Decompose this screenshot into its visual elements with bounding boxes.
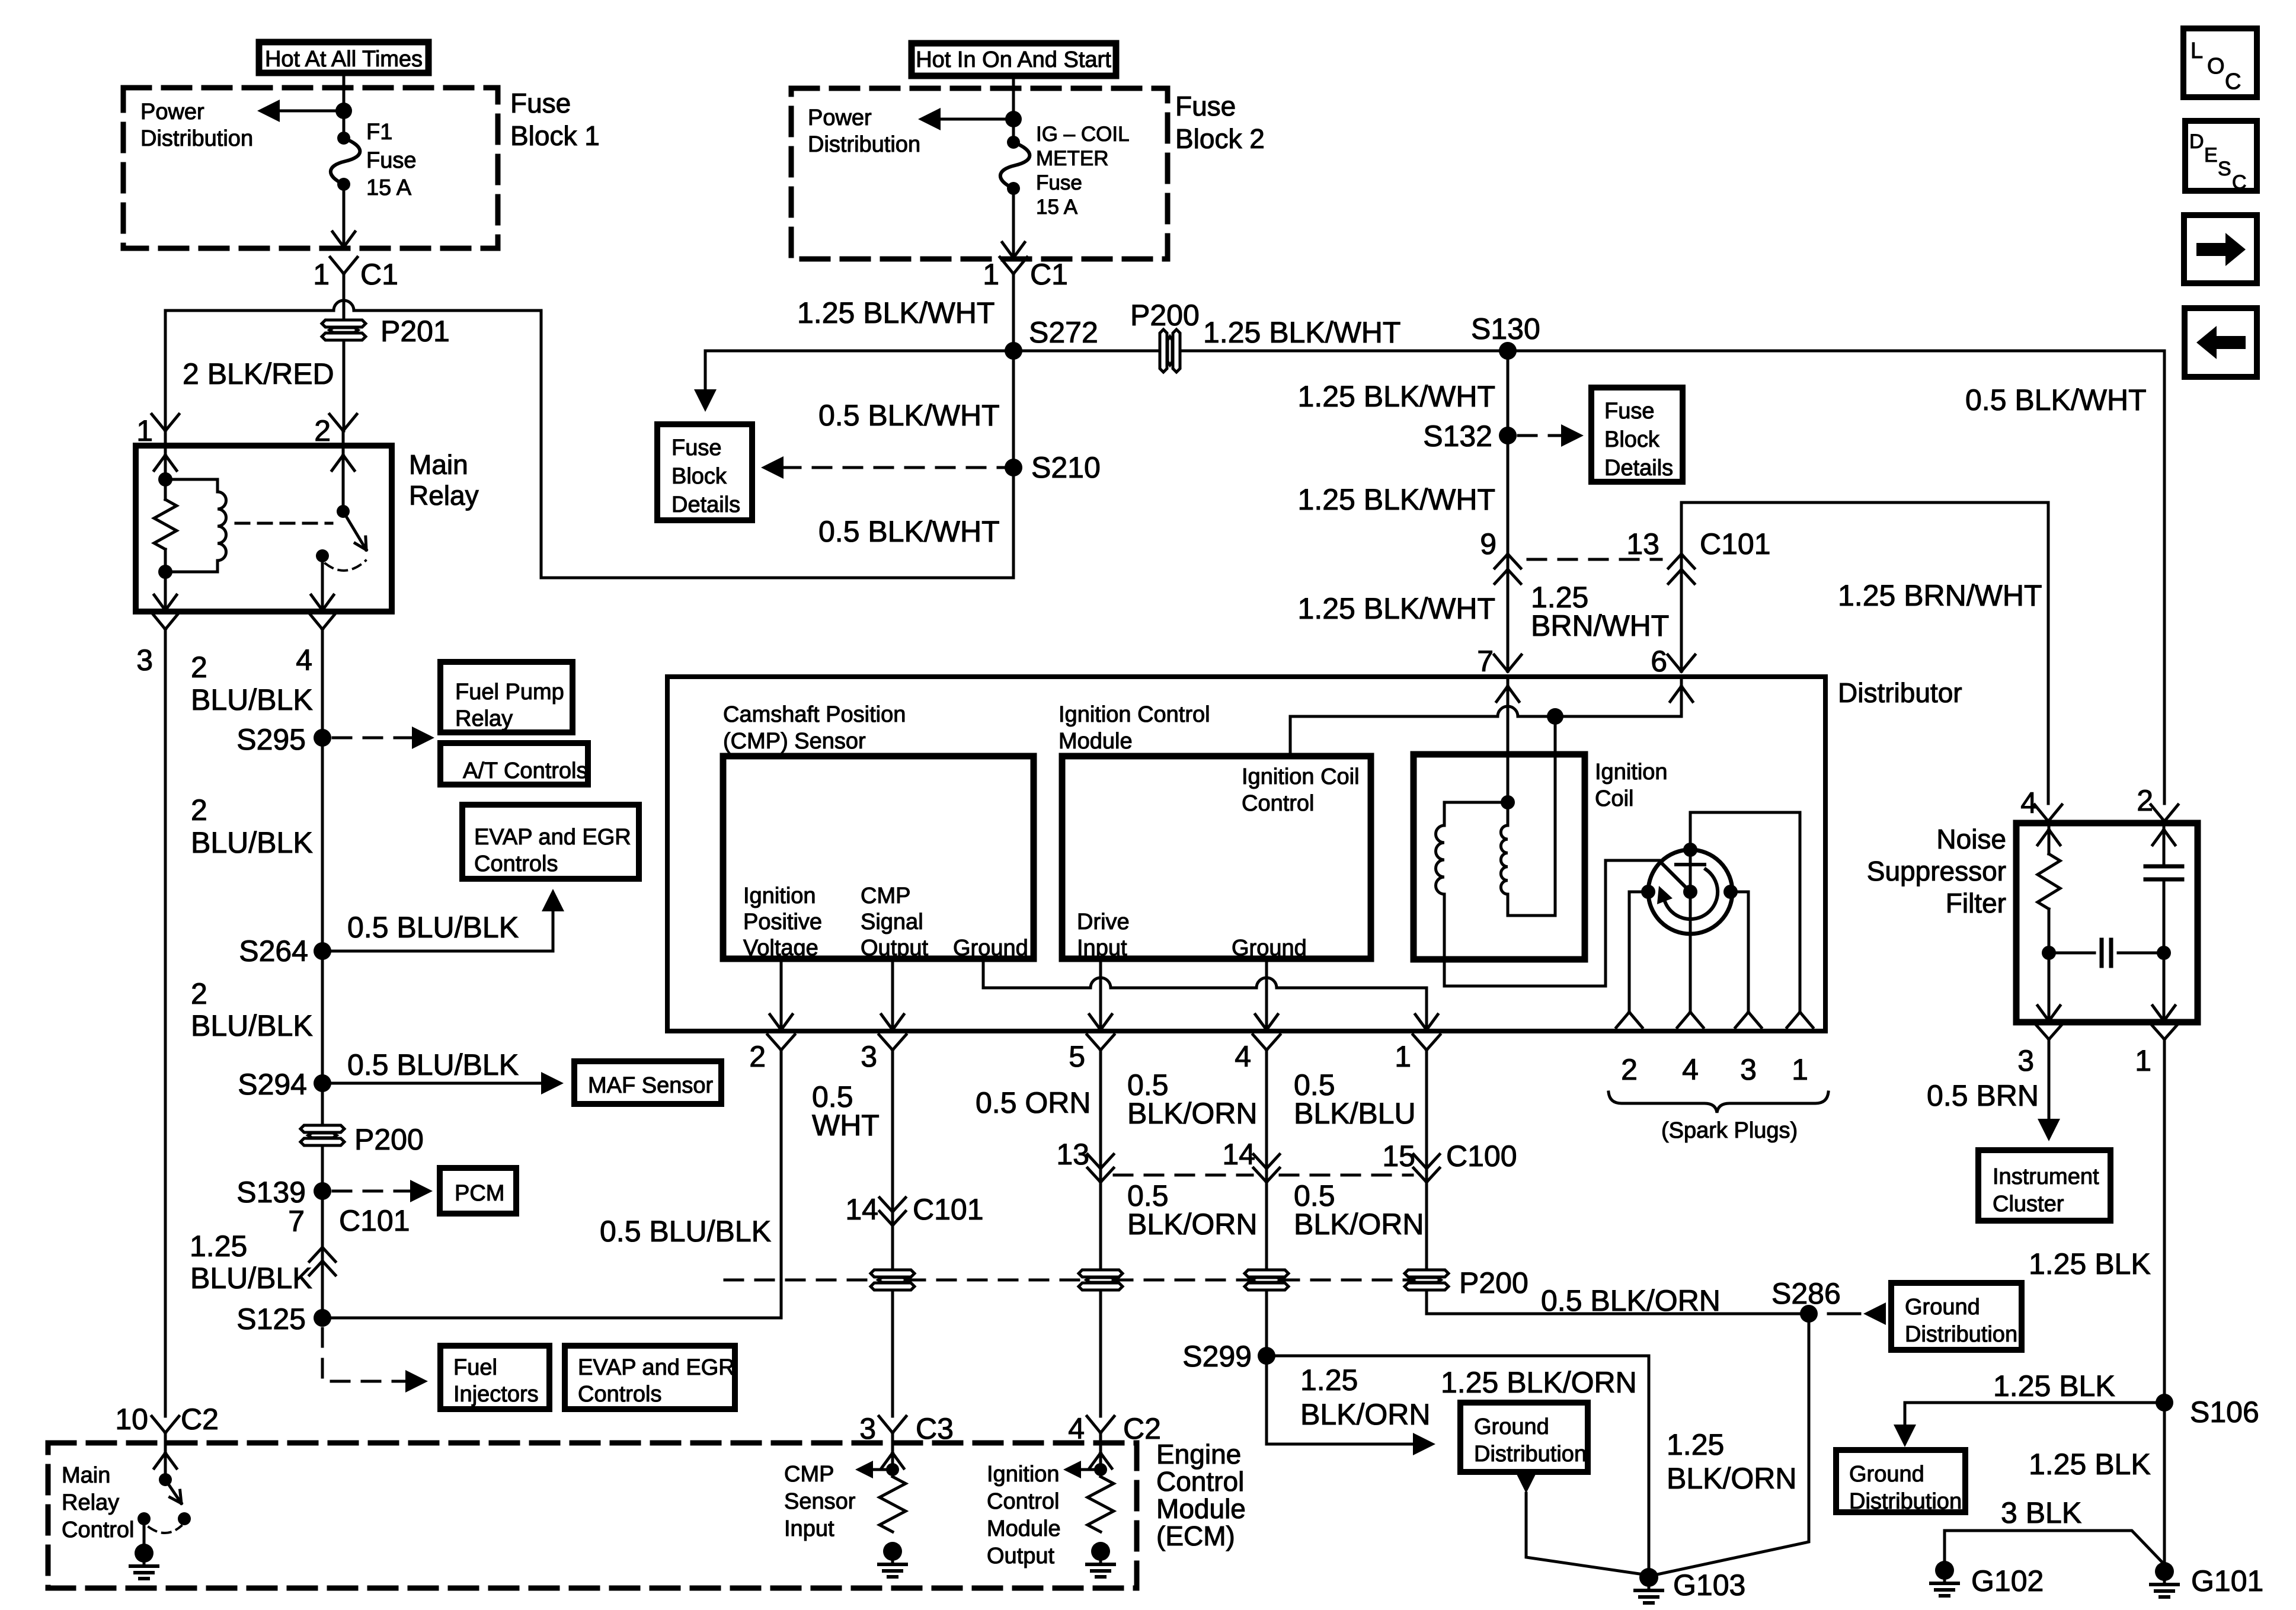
svg-text:2: 2 — [191, 977, 207, 1010]
node S286 — [1800, 1305, 1818, 1323]
svg-text:Ground: Ground — [1474, 1414, 1549, 1439]
wire P200 to S299 — [1265, 1293, 1268, 1356]
svg-text:3: 3 — [859, 1412, 876, 1445]
svg-text:Injectors: Injectors — [453, 1382, 539, 1407]
svg-text:S: S — [2218, 158, 2231, 180]
svg-text:Output: Output — [987, 1544, 1055, 1569]
svg-text:C101: C101 — [913, 1193, 984, 1226]
ref box: PCM — [440, 1168, 516, 1214]
distributor bottom connector pin 3 — [861, 1035, 906, 1073]
label 1.25 BLK/WHT (S130-S132) — [1298, 380, 1495, 413]
node: coil control junction — [1547, 708, 1563, 725]
wire C101 pin9 to distributor pin 7 — [0, 0, 1, 1]
label S132 — [1423, 420, 1492, 453]
label Ignition Coil — [1595, 760, 1668, 811]
svg-text:1.25 BRN/WHT: 1.25 BRN/WHT — [1838, 579, 2042, 612]
svg-text:Fuel Pump: Fuel Pump — [455, 680, 564, 705]
svg-text:Relay: Relay — [409, 480, 479, 511]
ref box: Fuse Block Details (left) — [657, 424, 752, 520]
label CMP Signal Output — [861, 884, 929, 961]
svg-text:Power: Power — [808, 105, 872, 130]
connector C101 pin 9 — [1480, 527, 1521, 584]
label F1 Fuse 15 A — [366, 120, 416, 200]
label 1.25 BLK (S106 left) — [1993, 1369, 2115, 1403]
svg-text:1: 1 — [136, 414, 153, 447]
svg-text:0.5 BRN: 0.5 BRN — [1927, 1079, 2039, 1112]
label Power Distribution (block 1) — [140, 100, 253, 151]
label 1 C1 (block2) — [983, 258, 1068, 291]
svg-text:Positive: Positive — [743, 910, 822, 934]
wire C101 pin14 to P200 — [0, 0, 1, 1]
icon box LOC — [2183, 28, 2257, 97]
svg-text:S294: S294 — [238, 1068, 307, 1101]
node S264 — [314, 942, 331, 960]
rotor rotation arrow — [1657, 869, 1718, 919]
relay coil bottom node — [158, 565, 172, 579]
relay switch pivot — [337, 505, 350, 518]
svg-text:Ignition Control: Ignition Control — [1059, 702, 1210, 727]
wire P200 to S286 (0.5 BLK/ORN) — [1427, 1293, 1809, 1314]
svg-text:BLU/BLK: BLU/BLK — [191, 826, 313, 859]
distributor bottom connector pin 5 — [1069, 1035, 1114, 1073]
wire P200 to C3 (0.5 WHT) — [891, 1293, 894, 1416]
label 1.25 BLK/ORN (S299 down) — [1300, 1363, 1431, 1431]
svg-text:BLK/ORN: BLK/ORN — [1300, 1398, 1431, 1431]
svg-text:1.25 BLK: 1.25 BLK — [1993, 1369, 2115, 1403]
wire ground distribution to G103 — [1515, 1471, 1643, 1574]
relay switch blade — [343, 511, 366, 550]
ignition coil control wire — [1290, 706, 1681, 756]
label 0.5 BLU/BLK (S264) — [347, 911, 519, 944]
svg-text:Distributor: Distributor — [1838, 677, 1962, 708]
svg-text:G103: G103 — [1673, 1569, 1745, 1602]
svg-text:Details: Details — [671, 492, 740, 517]
svg-text:(CMP) Sensor: (CMP) Sensor — [723, 729, 866, 754]
svg-text:Module: Module — [1156, 1493, 1246, 1524]
wire from Hot In On And Start into fuse block 2 — [1012, 76, 1015, 142]
svg-text:Details: Details — [1604, 456, 1673, 481]
wire from S272 to fuse block details arrow — [694, 351, 1005, 412]
svg-text:BLK/ORN: BLK/ORN — [1294, 1208, 1424, 1241]
label S210 — [1031, 451, 1101, 484]
arrow to Power Distribution (block1) — [257, 100, 344, 122]
connector C101 pin 14 — [845, 1193, 983, 1226]
svg-text:1.25 BLK/ORN: 1.25 BLK/ORN — [1441, 1366, 1637, 1399]
arrow ignition control module output — [1063, 1461, 1101, 1478]
label Main Relay Control — [62, 1463, 135, 1542]
noise suppressor capacitor (right) — [2145, 823, 2182, 953]
svg-text:4: 4 — [2020, 786, 2037, 820]
wire from fuse to connector C1 (block2) — [1002, 188, 1025, 258]
label Main Relay — [409, 449, 479, 511]
main relay control switch blade — [165, 1480, 181, 1503]
svg-text:Filter: Filter — [1946, 888, 2006, 918]
svg-text:1.25 BLK: 1.25 BLK — [2029, 1247, 2151, 1281]
relay actuation dashed link — [236, 522, 332, 525]
ground (ECM CMP) — [879, 1542, 906, 1577]
svg-text:2 BLK/RED: 2 BLK/RED — [183, 357, 334, 391]
wire pin4 to C100 pin 14 — [1265, 1050, 1268, 1267]
wire distributor pin6 internal — [1670, 677, 1693, 716]
ref box: Ground Distribution (upper right) — [1891, 1283, 2022, 1350]
svg-text:Controls: Controls — [578, 1382, 662, 1407]
label S299 — [1182, 1340, 1252, 1373]
label G102 — [1971, 1564, 2044, 1598]
svg-text:Fuse: Fuse — [366, 148, 416, 173]
CMP ignition positive voltage wire (pin 2) — [770, 959, 792, 1031]
label 0.5 BLU/BLK (S294) — [347, 1048, 519, 1081]
svg-text:METER: METER — [1036, 147, 1109, 170]
CMP ground wire to pin 1 — [983, 959, 1438, 1031]
node S210 — [1005, 459, 1022, 476]
label S139 — [236, 1176, 306, 1209]
svg-text:Power: Power — [140, 100, 204, 124]
svg-text:1.25 BLK/WHT: 1.25 BLK/WHT — [1298, 380, 1495, 413]
relay coil top node — [158, 472, 172, 486]
svg-text:Signal: Signal — [861, 910, 923, 934]
rotor cap right contact — [1723, 885, 1738, 899]
svg-text:15 A: 15 A — [366, 175, 412, 200]
label S295 — [236, 723, 306, 756]
ground (ECM ICM) — [1087, 1542, 1114, 1577]
CMP signal output wire (pin 3) — [881, 959, 904, 1031]
wire P200 to S130 1.25 BLK/WHT — [1183, 350, 1508, 353]
svg-text:Fuse: Fuse — [1036, 171, 1082, 194]
noise suppressor pin 4 connector — [2020, 786, 2062, 821]
dashed arrow from S125 to fuel injectors — [322, 1329, 428, 1393]
label Ground (CMP) — [953, 936, 1028, 961]
spark plug wire 2 — [1616, 892, 1648, 1028]
label P200 (top) — [1130, 299, 1200, 332]
C101 mating dashed line — [1528, 558, 1661, 561]
ref box: Fuel Pump Relay — [440, 662, 573, 732]
svg-text:14: 14 — [1222, 1138, 1255, 1171]
label 1.25 BLK/ORN (S299-G103) — [1441, 1366, 1637, 1399]
label Ignition Coil Control — [1242, 764, 1360, 816]
ECM internal resistor (ICM) — [1088, 1477, 1114, 1532]
wire S106 to G101 (1.25 BLK) — [2163, 1403, 2166, 1567]
svg-text:Distribution: Distribution — [1905, 1322, 2017, 1347]
node S132 — [1499, 427, 1517, 444]
camshaft position sensor box — [723, 756, 1034, 959]
label P201 — [380, 315, 450, 348]
connector C101 pin 13 — [1626, 527, 1770, 584]
wire pin1 to C100 pin 15 — [1425, 1050, 1428, 1267]
svg-text:Coil: Coil — [1595, 786, 1633, 811]
svg-text:1.25: 1.25 — [190, 1230, 247, 1263]
ground G103 — [1635, 1568, 1662, 1603]
noise filter leg to pin 1 — [2153, 953, 2175, 1022]
svg-text:C100: C100 — [1446, 1140, 1517, 1173]
icon box DESC — [2185, 121, 2257, 194]
svg-text:3 BLK: 3 BLK — [2001, 1496, 2081, 1529]
distributor rotor circle — [1648, 850, 1732, 934]
svg-text:Module: Module — [987, 1516, 1061, 1541]
relay pin4 internal wire with down arrow — [311, 556, 334, 612]
svg-text:C1: C1 — [360, 258, 398, 291]
wire from relay pin3 down to ECM C2 pin10 — [164, 629, 167, 1416]
ref box: Ground Distribution (lower right) — [1836, 1450, 1965, 1514]
noise suppressor pin 1 connector — [2135, 1024, 2178, 1077]
wire S286 to G103 (1.25 BLK/ORN) — [1657, 1323, 1809, 1574]
svg-text:Distribution: Distribution — [1474, 1442, 1587, 1467]
relay pin2 internal wire with up arrow — [332, 446, 354, 511]
connector C3 pin 3 — [859, 1412, 954, 1445]
ground (main relay control) — [130, 1544, 158, 1579]
svg-text:S272: S272 — [1029, 316, 1098, 349]
connector C1 pin 1 (fuse block 1) — [330, 257, 357, 320]
svg-text:BRN/WHT: BRN/WHT — [1531, 609, 1669, 642]
dashed arrow from S210 to fuse block details — [761, 456, 1005, 479]
svg-text:Relay: Relay — [62, 1490, 119, 1515]
svg-text:Ground: Ground — [1232, 936, 1307, 961]
label (Spark Plugs) — [1661, 1118, 1798, 1143]
node: tap to power distribution (block1) — [335, 103, 352, 119]
label 1.25 BLK (S106-G101) — [2029, 1448, 2151, 1481]
wire 0.5 BLU/BLK from S294 to MAF sensor — [322, 1072, 564, 1094]
dashed arrow from S139 to PCM — [333, 1180, 433, 1202]
noise suppressor filter box — [2016, 823, 2198, 1022]
svg-text:E: E — [2204, 144, 2218, 167]
svg-text:Block 2: Block 2 — [1175, 123, 1265, 154]
wire C100 pin14 to P200 — [0, 0, 1, 1]
label 2 BLU/BLK (1) — [191, 651, 313, 716]
svg-text:Block 1: Block 1 — [510, 120, 600, 151]
node S106 — [2156, 1394, 2173, 1411]
svg-text:BLK/BLU: BLK/BLU — [1294, 1097, 1416, 1130]
label Distributor — [1838, 677, 1962, 708]
svg-text:1: 1 — [313, 258, 330, 291]
node S272 — [1005, 342, 1022, 360]
svg-text:0.5 BLU/BLK: 0.5 BLU/BLK — [600, 1215, 771, 1248]
svg-text:4: 4 — [1068, 1412, 1085, 1445]
svg-text:C1: C1 — [1030, 258, 1068, 291]
ref box: A/T Controls — [440, 743, 588, 785]
svg-text:Main: Main — [409, 449, 468, 480]
wire S272 to P200 — [1013, 350, 1157, 353]
arrow to Power Distribution (block2) — [918, 108, 1013, 130]
label 1.25 BRN/WHT (13-6) — [1531, 581, 1669, 642]
svg-text:Voltage: Voltage — [743, 936, 818, 961]
wire 0.5 BLU/BLK from S264 to EVAP/EGR — [322, 889, 564, 951]
ref box: MAF Sensor — [574, 1061, 721, 1104]
svg-text:WHT: WHT — [812, 1109, 880, 1142]
svg-text:Distribution: Distribution — [808, 132, 920, 157]
grommet P200 on CMP signal wire — [871, 1270, 914, 1290]
svg-text:S264: S264 — [239, 934, 308, 968]
wire C100 pin13 to P200 — [0, 0, 1, 1]
svg-text:Fuse: Fuse — [510, 88, 571, 119]
main relay control switch wire — [154, 1433, 177, 1480]
svg-text:Engine: Engine — [1156, 1439, 1241, 1470]
connector C100 pin 15 — [1382, 1140, 1517, 1182]
distributor bottom connector pin 4 — [1235, 1035, 1280, 1073]
label S125 — [236, 1302, 306, 1336]
svg-text:S130: S130 — [1471, 312, 1540, 345]
svg-text:0.5 BLK/WHT: 0.5 BLK/WHT — [818, 515, 1000, 548]
svg-text:6: 6 — [1651, 645, 1667, 678]
inline grommet P200 (ignition feed) — [1160, 329, 1180, 372]
svg-text:S125: S125 — [236, 1302, 306, 1336]
wire from F1 to connector C1 pin1 — [332, 184, 355, 247]
distributor pin 7 connector — [1477, 645, 1521, 678]
label 2 BLK/RED — [183, 357, 334, 391]
label S294 — [238, 1068, 307, 1101]
label 0.5 WHT — [812, 1080, 880, 1142]
svg-text:P201: P201 — [380, 315, 450, 348]
label S130 — [1471, 312, 1540, 345]
svg-text:2: 2 — [314, 414, 331, 447]
label 0.5 BLK/WHT (upper) — [818, 399, 1000, 432]
svg-text:Controls: Controls — [474, 852, 558, 876]
svg-text:C101: C101 — [339, 1204, 410, 1237]
label Noise Suppressor Filter — [1867, 824, 2006, 918]
svg-text:Fuse: Fuse — [671, 436, 721, 460]
main relay pin 1 connector — [152, 414, 179, 446]
svg-text:PCM: PCM — [455, 1181, 504, 1206]
svg-text:1: 1 — [1792, 1053, 1808, 1086]
grommet P200 on CMP ground wire — [1405, 1270, 1448, 1290]
distributor bottom connector pin 2 — [749, 1035, 795, 1073]
svg-text:Ignition Coil: Ignition Coil — [1242, 764, 1360, 789]
svg-text:EVAP and EGR: EVAP and EGR — [578, 1355, 735, 1380]
svg-text:Distribution: Distribution — [1849, 1489, 1962, 1514]
svg-text:3: 3 — [1740, 1053, 1757, 1086]
svg-text:Control: Control — [987, 1489, 1060, 1514]
wire from main relay pin1 loop to S210/S272 (0.5 BLK/WHT) — [165, 300, 1013, 578]
label 1.25 BLK/ORN (S286-G103) — [1667, 1428, 1797, 1495]
connector C2 pin 10 — [115, 1403, 219, 1436]
node noise filter left — [2042, 946, 2056, 960]
label P200 (relay feed) — [354, 1123, 424, 1156]
svg-text:2: 2 — [749, 1040, 766, 1073]
svg-text:L: L — [2191, 39, 2203, 63]
spark plug wire 3 — [1731, 892, 1761, 1028]
connector C100 pin 13 — [1056, 1138, 1114, 1182]
node S130 — [1499, 342, 1517, 360]
main relay box — [136, 446, 392, 612]
label CMP Sensor Input — [784, 1462, 856, 1541]
fuse IG-COIL METER 15A symbol — [1000, 136, 1030, 195]
ICM ground wire (pin 4) — [1255, 959, 1278, 1031]
relay coil winding — [165, 479, 226, 572]
distributor box — [667, 677, 1825, 1031]
svg-text:Ignition: Ignition — [743, 884, 816, 908]
label 3 BLK — [2001, 1496, 2081, 1529]
svg-text:1: 1 — [2135, 1044, 2151, 1077]
ignition coil box — [1414, 754, 1585, 959]
label G101 — [2191, 1564, 2263, 1598]
label Ignition Control Module Output — [987, 1462, 1061, 1569]
svg-text:1: 1 — [1395, 1040, 1411, 1073]
label S286 — [1771, 1277, 1841, 1310]
label Ignition Control Module — [1059, 702, 1210, 754]
label pin 2 — [314, 414, 331, 447]
svg-text:1.25 BLK/WHT: 1.25 BLK/WHT — [797, 296, 994, 329]
svg-text:Suppressor: Suppressor — [1867, 856, 2006, 886]
pass-through grommet P201 — [322, 320, 366, 340]
wire 0.5 BRN to instrument cluster — [2038, 1039, 2060, 1141]
label 1.25 BLU/BLK — [190, 1230, 312, 1295]
svg-text:2: 2 — [1621, 1053, 1638, 1086]
wire 2 BLU/BLK from relay pin4 down to S125 — [321, 629, 324, 1315]
svg-text:C3: C3 — [916, 1412, 954, 1445]
node: tap to power distribution (block2) — [1005, 111, 1022, 127]
svg-text:Drive: Drive — [1077, 910, 1130, 934]
svg-text:C: C — [2232, 171, 2247, 194]
label 1.25 BLK/WHT (S132-9) — [1298, 483, 1495, 516]
wire S106 to ground distribution (1.25 BLK) — [1894, 1403, 2164, 1447]
label 0.5 BLK/ORN (pin4 upper) — [1127, 1068, 1258, 1130]
wire junction down to coil primary — [1554, 716, 1557, 916]
label IG - COIL METER Fuse 15 A — [1036, 123, 1130, 219]
svg-text:Block: Block — [1604, 427, 1660, 452]
svg-text:14: 14 — [845, 1193, 878, 1226]
main relay pin 3 connector — [152, 613, 179, 629]
spark plug wire 1 — [1690, 812, 1813, 1028]
spark plug wire 4 — [1677, 892, 1703, 1028]
wire pin5 to C100 pin 13 — [1099, 1050, 1102, 1267]
wire noise filter pin1 to S106 (1.25 BLK) — [2163, 1039, 2166, 1403]
dashed arrow from S132 to fuse block details (right) — [1518, 424, 1584, 447]
svg-text:S295: S295 — [236, 723, 306, 756]
label Fuse Block 2 — [1175, 91, 1265, 154]
grommet P200 on drive input wire — [1079, 1270, 1123, 1290]
ref box: EVAP and EGR Controls (lower) — [565, 1346, 735, 1409]
spark plugs brace — [1609, 1092, 1828, 1113]
svg-text:Hot In On And Start: Hot In On And Start — [916, 47, 1111, 72]
relay pin3 internal wire with down arrow — [154, 572, 177, 612]
distributor bottom connector pin 1 — [1395, 1035, 1440, 1073]
svg-text:MAF Sensor: MAF Sensor — [588, 1073, 714, 1098]
svg-text:10: 10 — [115, 1403, 148, 1436]
connector C1 pin 1 (fuse block 2) — [1000, 257, 1027, 351]
svg-text:BLU/BLK: BLU/BLK — [191, 1009, 313, 1042]
wire 2 BLK/RED from P201 to main relay pin 2 — [343, 340, 346, 431]
icon box next arrow — [2184, 215, 2257, 283]
svg-text:Hot At All Times: Hot At All Times — [265, 47, 423, 72]
connector C2 pin 4 — [1068, 1412, 1161, 1445]
label 7 C101 — [288, 1204, 410, 1238]
svg-text:1.25 BLK: 1.25 BLK — [2029, 1448, 2151, 1481]
wire C101 pin13 up and over to noise suppressor pin 4 — [1681, 502, 2048, 804]
svg-text:CMP: CMP — [861, 884, 910, 908]
label box: Hot In On And Start — [912, 43, 1116, 76]
svg-text:Cluster: Cluster — [1993, 1192, 2064, 1217]
main relay pin 2 connector — [330, 414, 357, 446]
noise suppressor pin 2 connector — [2137, 784, 2178, 821]
svg-text:BLK/ORN: BLK/ORN — [1667, 1462, 1797, 1495]
svg-text:2: 2 — [191, 793, 207, 827]
label S264 — [239, 934, 308, 968]
svg-text:Ground: Ground — [953, 936, 1028, 961]
ref box: Fuse Block Details (right) — [1591, 388, 1683, 482]
C100 mating dashed line — [1114, 1174, 1412, 1177]
svg-text:0.5 BLK/WHT: 0.5 BLK/WHT — [818, 399, 1000, 432]
node S139 — [314, 1182, 331, 1200]
ICM output node — [1094, 1463, 1107, 1476]
node S299 — [1258, 1347, 1275, 1365]
rotor center contact — [1683, 885, 1697, 899]
label Ground (ICM) — [1232, 936, 1307, 961]
label box: Hot At All Times — [259, 42, 428, 73]
svg-text:Sensor: Sensor — [784, 1489, 856, 1514]
noise filter leg to pin 3 — [2038, 953, 2060, 1022]
svg-text:7: 7 — [288, 1205, 305, 1238]
svg-text:1.25: 1.25 — [1667, 1428, 1724, 1461]
wire rotor top to spark wire 1 — [1689, 812, 1692, 850]
label Fuse Block 1 — [510, 88, 600, 151]
